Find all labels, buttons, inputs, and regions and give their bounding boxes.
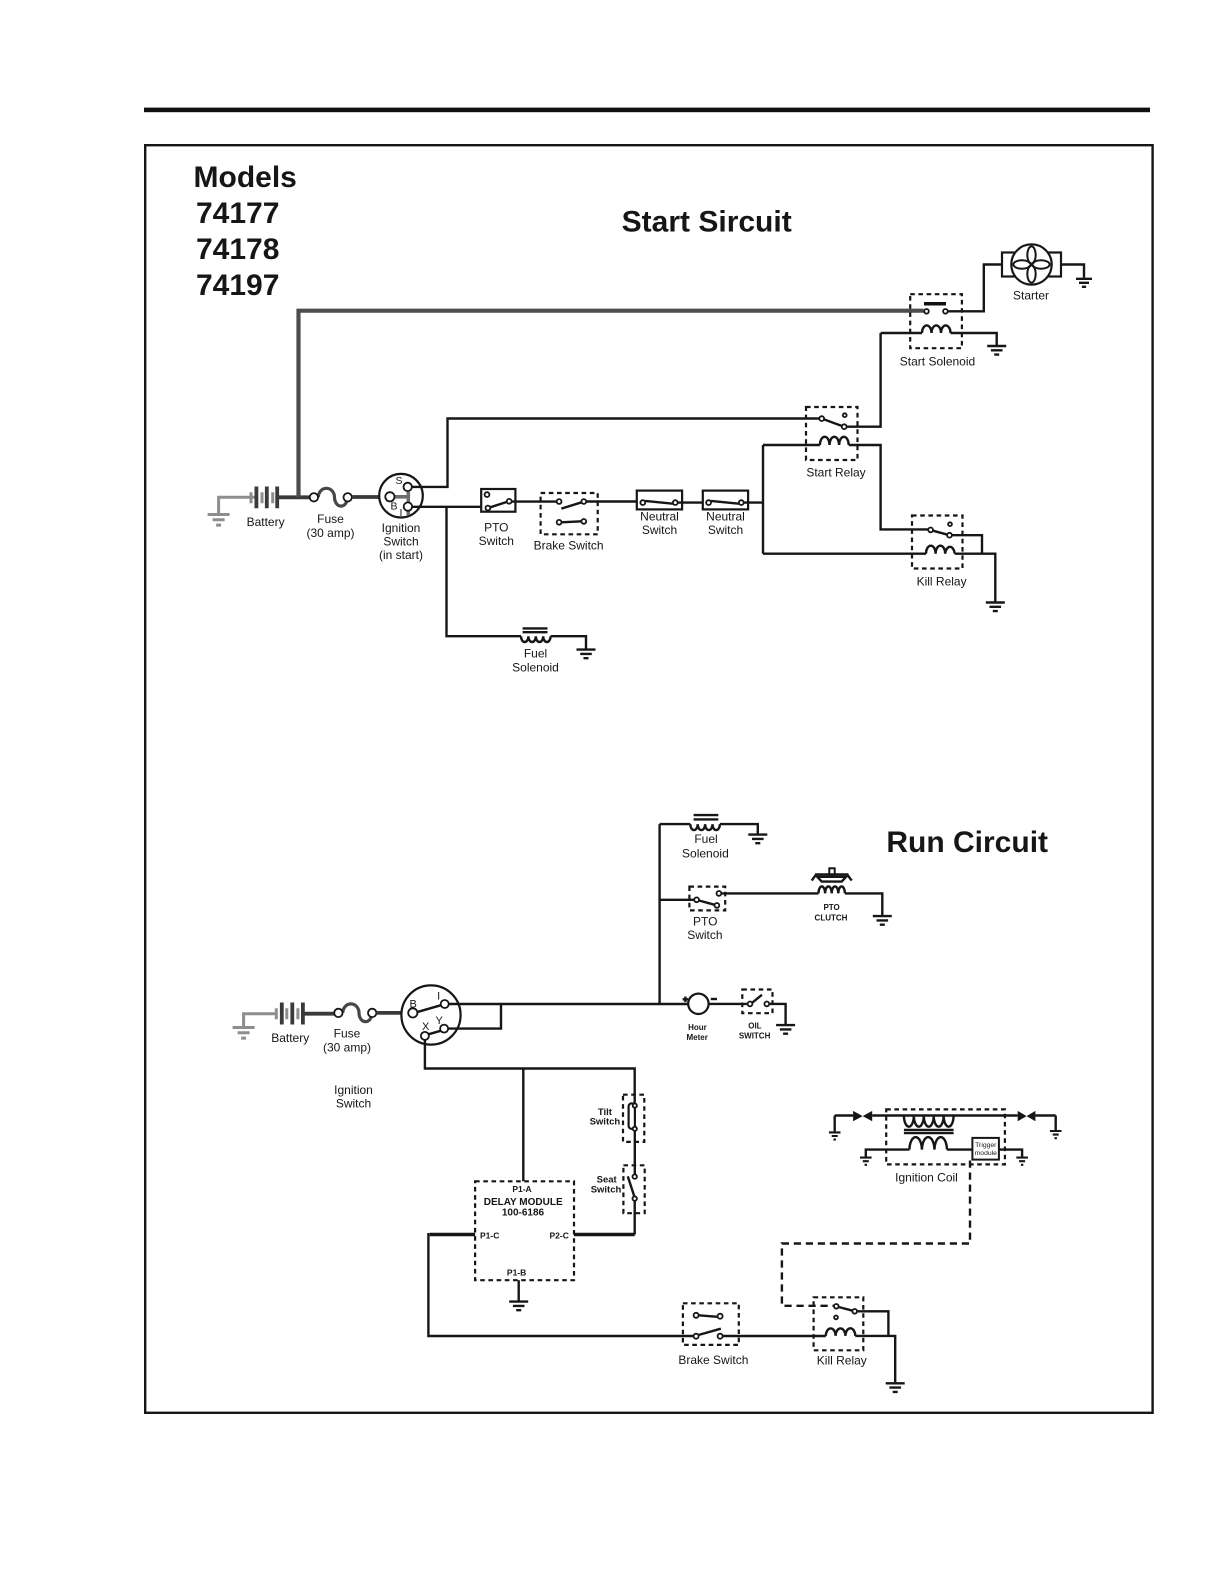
svg-text:Switch: Switch <box>687 928 722 942</box>
svg-text:Fuse: Fuse <box>334 1027 361 1041</box>
svg-text:Battery: Battery <box>271 1031 309 1045</box>
wire fuse to ignition switch <box>352 495 386 499</box>
ground (starter) <box>1076 279 1092 287</box>
wire PTO clutch to ground <box>845 893 882 915</box>
wire junction riser (node) <box>762 445 764 554</box>
PTO clutch L3 <box>812 868 852 893</box>
PTO switch SW5 <box>689 887 725 911</box>
coil primary winding <box>909 1137 947 1149</box>
svg-text:Models: Models <box>194 161 297 194</box>
wire trigger module to ground <box>999 1150 1022 1157</box>
dashed kill wire trigger to kill relay <box>782 1161 970 1306</box>
starter M1 <box>1002 244 1061 284</box>
wire PTO switch to brake switch <box>512 500 557 502</box>
brake switch SW3 <box>541 493 598 534</box>
svg-text:74178: 74178 <box>196 233 279 266</box>
wire start relay coil to junction <box>763 444 820 446</box>
node riser fuel solenoid / PTO switch <box>658 824 660 1004</box>
svg-text:PTO: PTO <box>823 903 839 912</box>
spark plug gap right <box>1018 1111 1036 1121</box>
wire brake switch to neutral switch 1 <box>586 500 640 502</box>
spark plug gap left <box>853 1111 872 1121</box>
svg-text:OIL: OIL <box>748 1022 761 1031</box>
svg-text:Brake Switch: Brake Switch <box>678 1353 748 1367</box>
fuel solenoid L1 <box>521 628 551 642</box>
svg-text:Switch: Switch <box>590 1117 621 1128</box>
wire primary right to trigger module <box>947 1148 972 1150</box>
trigger module <box>972 1138 999 1160</box>
delay module U1 <box>475 1181 574 1280</box>
battery B2 <box>276 1003 303 1025</box>
svg-text:74177: 74177 <box>196 197 279 230</box>
ground (battery B2, gray) <box>233 1014 277 1038</box>
battery B1 <box>251 487 277 509</box>
svg-text:Kill Relay: Kill Relay <box>917 575 967 589</box>
wire node to PTO switch <box>660 899 695 901</box>
brake switch SW9 <box>683 1303 739 1345</box>
wire HT lead left <box>835 1114 853 1116</box>
wire start relay coil to kill relay switch <box>849 445 929 529</box>
svg-text:Switch: Switch <box>383 535 418 549</box>
wire kill relay coil to junction <box>763 553 926 555</box>
svg-text:Switch: Switch <box>708 523 743 537</box>
svg-text:Meter: Meter <box>687 1033 708 1042</box>
ground (oil switch) <box>776 1025 795 1034</box>
neutral switch 2 <box>703 491 748 510</box>
wire start relay switch to solenoid coil <box>847 333 881 427</box>
ground (P1-B) <box>509 1302 528 1311</box>
wire P2-C <box>574 1233 635 1237</box>
wire drop to fuel solenoid <box>447 507 522 636</box>
svg-text:Start Relay: Start Relay <box>806 466 865 480</box>
wire X terminal to tilt switch <box>425 1040 635 1104</box>
svg-text:(30 amp): (30 amp) <box>306 526 354 540</box>
svg-text:S: S <box>395 475 402 487</box>
svg-text:X: X <box>422 1021 430 1033</box>
ground (right plug) <box>1050 1131 1062 1138</box>
svg-text:Brake Switch: Brake Switch <box>534 539 604 553</box>
wire battery to fuse <box>277 495 310 499</box>
ground (kill relay run) <box>886 1383 905 1392</box>
svg-text:P1-C: P1-C <box>480 1231 499 1241</box>
svg-text:Starter: Starter <box>1013 289 1049 303</box>
wire kill relay coil to ground <box>955 554 996 602</box>
tilt switch SW7 <box>623 1095 644 1142</box>
ground (kill relay) <box>986 603 1005 612</box>
svg-text:(in start): (in start) <box>379 548 423 562</box>
wire solenoid coil right lead to ground <box>951 333 997 345</box>
start solenoid K2 <box>910 294 962 348</box>
border frame <box>145 145 1152 1413</box>
oil switch SW6 <box>742 990 772 1014</box>
fuel solenoid L2 <box>660 815 720 830</box>
svg-text:PTO: PTO <box>693 915 717 929</box>
start relay K1 <box>806 407 858 460</box>
wire solenoid contact to starter <box>948 265 1002 312</box>
svg-text:Hour: Hour <box>688 1023 707 1032</box>
wire PTO switch to PTO clutch <box>721 892 818 894</box>
svg-text:Ignition: Ignition <box>334 1083 373 1097</box>
ground (left plug) <box>829 1132 841 1139</box>
svg-text:Fuel: Fuel <box>694 832 717 846</box>
ground (PTO clutch) <box>873 916 892 925</box>
svg-text:Fuel: Fuel <box>524 647 547 661</box>
wire B+ feed riser to start solenoid <box>299 311 924 498</box>
svg-text:Start Sircuit: Start Sircuit <box>622 206 792 239</box>
wire Y terminal jog <box>448 1004 501 1029</box>
svg-text:P1-B: P1-B <box>507 1268 526 1278</box>
wire tilt switch to seat switch <box>634 1131 636 1174</box>
wire HT lead right <box>1035 1114 1055 1116</box>
wire fuel solenoid to ground <box>551 636 586 648</box>
wire neutral 2 to junction <box>744 501 763 503</box>
wire S terminal to start relay <box>412 419 820 487</box>
kill relay K4 <box>814 1297 864 1350</box>
ground (fuel solenoid) <box>577 650 596 659</box>
wire P1-C to brake switch <box>430 1233 475 1237</box>
wire right plug drop <box>1054 1116 1056 1131</box>
wire hour meter to oil switch <box>709 1003 748 1005</box>
wire fuse to ignition switch <box>376 1011 405 1015</box>
svg-text:Run Circuit: Run Circuit <box>886 826 1048 859</box>
wire solenoid coil left lead <box>881 332 922 334</box>
PTO switch SW2 <box>481 489 515 512</box>
hour meter M2 <box>683 994 717 1014</box>
wire I terminal to hour meter <box>449 1003 689 1005</box>
svg-text:B: B <box>390 501 397 513</box>
ignition switch SW4 <box>401 985 460 1044</box>
svg-text:Solenoid: Solenoid <box>512 661 559 675</box>
wire starter to ground <box>1061 265 1084 278</box>
svg-text:Ignition: Ignition <box>382 521 421 535</box>
wire oil switch to ground <box>769 1004 785 1024</box>
coil secondary winding <box>904 1116 954 1127</box>
svg-text:Y: Y <box>436 1015 444 1027</box>
ignition switch SW1 (in start) <box>379 474 423 519</box>
wire kill relay switch to coil lead <box>952 535 982 554</box>
svg-text:Fuse: Fuse <box>317 512 344 526</box>
ground (start solenoid) <box>987 346 1006 355</box>
svg-text:Trigger: Trigger <box>975 1142 997 1149</box>
wire fuel solenoid to ground <box>720 824 758 834</box>
ground (fuel solenoid run) <box>748 835 767 844</box>
wire kill relay coil to ground <box>855 1336 895 1382</box>
wire P1-B to ground <box>518 1280 520 1300</box>
svg-text:I: I <box>399 507 402 519</box>
svg-text:Neutral: Neutral <box>640 510 679 524</box>
svg-text:Battery: Battery <box>247 515 285 529</box>
svg-text:Switch: Switch <box>642 523 677 537</box>
ground (battery B1, gray) <box>208 497 256 525</box>
ground (trigger module) <box>1016 1158 1028 1165</box>
svg-text:module: module <box>975 1150 998 1157</box>
coil core <box>904 1130 954 1133</box>
svg-text:Switch: Switch <box>479 534 514 548</box>
wire seat switch to P2-C <box>634 1201 636 1235</box>
wire kill relay switch out <box>857 1311 888 1336</box>
neutral switch 1 <box>637 491 682 510</box>
svg-text:B: B <box>410 998 417 1010</box>
fuse F1 (30 amp) <box>310 488 352 506</box>
svg-text:74197: 74197 <box>196 269 279 302</box>
svg-text:Switch: Switch <box>591 1184 622 1195</box>
svg-text:Solenoid: Solenoid <box>682 847 729 861</box>
ignition coil T1 <box>886 1109 1005 1164</box>
svg-text:Start Solenoid: Start Solenoid <box>900 355 975 369</box>
wire brake switch to kill relay coil <box>723 1335 826 1337</box>
svg-text:P2-C: P2-C <box>550 1231 569 1241</box>
wire I terminal to PTO switch <box>412 506 486 508</box>
wire neutral 1 to neutral 2 <box>678 501 707 503</box>
kill relay K3 <box>912 516 963 569</box>
seat switch SW8 <box>623 1165 644 1213</box>
wire left plug drop <box>834 1116 836 1132</box>
fuse F2 (30 amp) <box>334 1004 376 1022</box>
wire drop to delay module P1-A <box>522 1069 524 1182</box>
wire battery to fuse <box>303 1012 335 1016</box>
svg-text:Ignition Coil: Ignition Coil <box>895 1171 958 1185</box>
svg-text:Kill Relay: Kill Relay <box>817 1354 867 1368</box>
svg-text:CLUTCH: CLUTCH <box>815 914 848 923</box>
svg-text:Switch: Switch <box>336 1097 371 1111</box>
svg-text:100-6186: 100-6186 <box>502 1208 545 1219</box>
svg-text:I: I <box>437 991 440 1003</box>
top rule <box>144 108 1150 113</box>
wire primary left to ground <box>866 1150 910 1157</box>
svg-text:Neutral: Neutral <box>706 510 745 524</box>
ground (primary left) <box>860 1158 872 1165</box>
svg-text:P1-A: P1-A <box>512 1184 531 1194</box>
svg-text:DELAY MODULE: DELAY MODULE <box>484 1197 563 1208</box>
svg-text:SWITCH: SWITCH <box>739 1031 771 1040</box>
svg-text:PTO: PTO <box>484 520 508 534</box>
wire HT lead mid <box>872 1114 1018 1116</box>
svg-text:(30 amp): (30 amp) <box>323 1041 371 1055</box>
